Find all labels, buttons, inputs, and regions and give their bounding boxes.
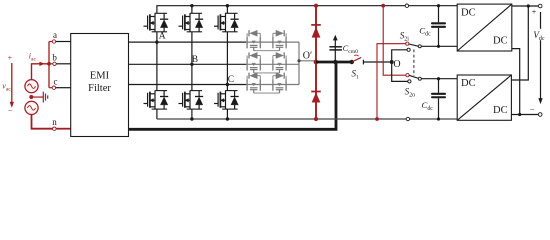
svg-text:Filter: Filter [88, 83, 111, 94]
svg-text:+: + [532, 7, 537, 17]
svg-text:DC: DC [461, 78, 476, 89]
svg-text:b: b [52, 52, 57, 62]
svg-text:A: A [159, 32, 166, 42]
svg-text:c: c [54, 76, 58, 86]
svg-text:+: + [8, 54, 13, 63]
svg-text:EMI: EMI [90, 71, 110, 82]
svg-text:a: a [53, 30, 57, 40]
svg-text:−: − [530, 104, 535, 114]
svg-text:O: O [393, 59, 400, 70]
svg-text:DC: DC [493, 105, 508, 116]
svg-text:n: n [52, 117, 57, 127]
svg-text:DC: DC [461, 7, 476, 18]
svg-text:−: − [8, 106, 13, 115]
svg-text:DC: DC [493, 36, 508, 47]
svg-text:O′: O′ [303, 50, 312, 61]
